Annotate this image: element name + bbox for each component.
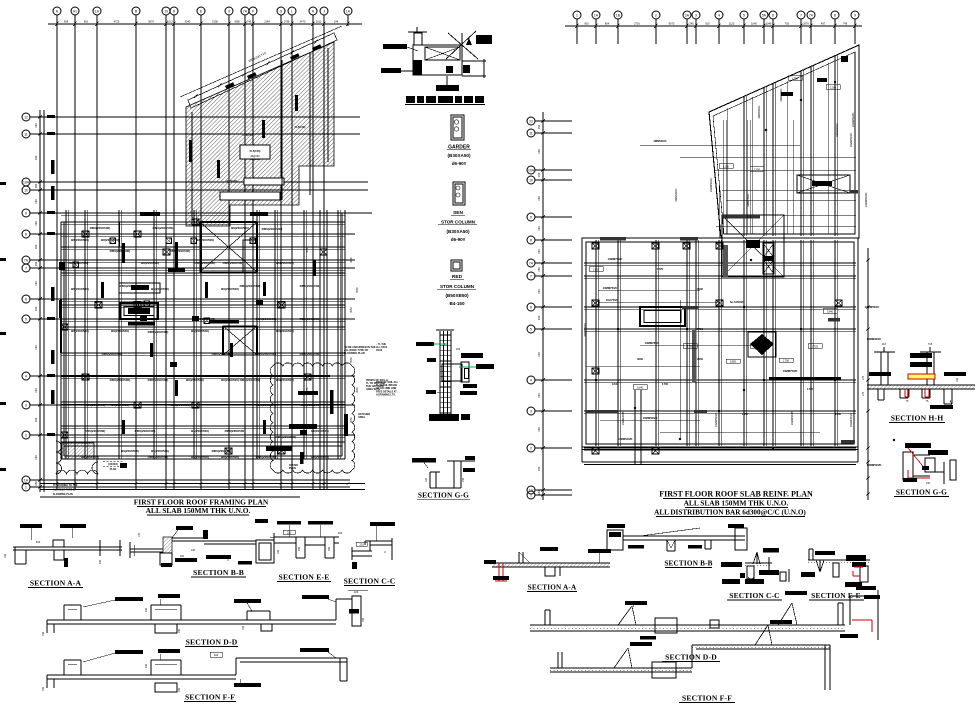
svg-text:1700: 1700 (662, 382, 668, 386)
svg-text:d6-90#: d6-90# (451, 237, 466, 242)
svg-text:10MM500/D: 10MM500/D (851, 113, 855, 128)
ladder detail: green arrows (434, 343, 447, 345)
svg-text:250: 250 (298, 546, 301, 551)
svg-text:RB6(200X500): RB6(200X500) (300, 317, 321, 321)
svg-text:B6(200X500): B6(200X500) (111, 403, 129, 407)
right plan: top grid stubs (576, 28, 578, 44)
lintel detail: leader label bars (383, 44, 407, 49)
section B-B left: right slab (204, 540, 256, 542)
svg-text:RB6(200X500): RB6(200X500) (256, 455, 277, 459)
svg-text:10MM500/D: 10MM500/D (618, 437, 633, 441)
svg-text:RB6(200X500): RB6(200X500) (212, 352, 233, 356)
section D-D right: small block (710, 620, 719, 628)
svg-text:FL5(150): FL5(150) (243, 133, 254, 137)
left plan: bottom-left corner hatched block (62, 443, 94, 459)
svg-text:STOR COLUMN: STOR COLUMN (441, 220, 476, 225)
svg-text:10MM500/C: 10MM500/C (714, 413, 718, 428)
svg-text:4725: 4725 (114, 19, 120, 23)
svg-text:(XXXXX): (XXXXX) (108, 463, 118, 466)
right plan: heavy beam fill bottom right (769, 377, 841, 380)
svg-text:SECTION A-A: SECTION A-A (30, 579, 82, 588)
lintel detail: heavy title blocks (406, 96, 415, 103)
section C-C right: drop beam (747, 566, 754, 579)
svg-text:B6(200X500): B6(200X500) (276, 378, 294, 382)
left plan: sloped dimension line with rotated text (180, 26, 342, 97)
section H-H: below-slab drops (877, 389, 879, 400)
svg-text:AREA: AREA (358, 416, 365, 419)
svg-text:150: 150 (242, 625, 245, 630)
section D-D right: brace 1 (618, 606, 632, 625)
section B-B left: upper beam lines (172, 537, 204, 539)
section B-B left: left ticks (129, 542, 131, 558)
section A-A left: left edge beam (14, 547, 16, 564)
lintel detail: black triangle (466, 38, 472, 45)
section B-B left: hatched column (163, 537, 172, 553)
svg-text:1148: 1148 (264, 19, 270, 23)
lintel detail: top tick (408, 31, 427, 33)
left plan: hatch region inner details (240, 145, 270, 159)
svg-text:J: J (323, 9, 325, 13)
svg-text:150: 150 (34, 261, 38, 266)
svg-text:150: 150 (537, 490, 541, 495)
svg-text:150: 150 (34, 244, 38, 249)
section C-C right: black bars (759, 570, 779, 575)
svg-text:7A: 7A (529, 261, 534, 265)
section A-A right: post and brace (518, 552, 520, 563)
svg-text:1A: 1A (95, 9, 100, 13)
section C-C left: profile (365, 540, 392, 542)
svg-text:1: 1 (25, 485, 27, 489)
section F-F left: raised block 2 with drop (150, 660, 152, 675)
svg-text:7A: 7A (243, 9, 248, 13)
section D-D right: right posts (837, 603, 839, 625)
section H-H: black reinforcement bars (910, 353, 932, 358)
svg-text:B6(200X500): B6(200X500) (191, 429, 209, 433)
right plan: right dimension chain (867, 248, 869, 500)
section F-F left: slab lines (47, 674, 236, 676)
svg-text:150: 150 (537, 315, 541, 320)
svg-text:1850: 1850 (742, 412, 748, 416)
svg-text:400: 400 (36, 540, 41, 544)
section E-E right: mid drop (833, 563, 839, 577)
svg-text:10MM300/D: 10MM300/D (621, 411, 625, 426)
svg-text:7A: 7A (24, 258, 29, 262)
right plan: gray beam fills (682, 306, 698, 309)
svg-text:3050: 3050 (350, 257, 353, 263)
svg-text:1A: 1A (24, 478, 29, 482)
svg-text:1788: 1788 (284, 19, 290, 23)
svg-text:10MM500/C: 10MM500/C (865, 305, 880, 309)
svg-text:150: 150 (537, 393, 541, 398)
section D-D left: right raised end (335, 599, 337, 620)
svg-text:5: 5 (530, 327, 532, 331)
svg-text:B6(200X500): B6(200X500) (276, 261, 294, 265)
svg-text:1940: 1940 (827, 309, 833, 313)
svg-text:150: 150 (537, 289, 541, 294)
right plan: vertical gray wall fills (692, 330, 697, 382)
svg-text:10MM500/D: 10MM500/D (790, 411, 794, 426)
section F-F left: right end post (339, 658, 341, 681)
svg-text:150: 150 (537, 226, 541, 231)
section D-D left: raised block 1 (63, 605, 65, 620)
section E-E right: left post (808, 549, 810, 560)
section E-E left: dims (283, 530, 295, 534)
svg-text:220: 220 (287, 531, 292, 535)
section G-G middle: profile (447, 460, 475, 462)
svg-text:220: 220 (359, 543, 364, 547)
section B-B right: diagonal connection (640, 528, 700, 536)
svg-text:8: 8 (834, 13, 836, 17)
svg-text:128: 128 (191, 549, 196, 552)
section D-D right: far right step detail (849, 596, 851, 625)
svg-text:150: 150 (537, 427, 541, 432)
svg-text:1A: 1A (346, 9, 351, 13)
svg-text:1640: 1640 (637, 385, 643, 389)
svg-text:B6(200X500): B6(200X500) (191, 329, 209, 333)
right plan: reinforcement verticals upper wing (722, 120, 724, 234)
section E-E right: right end cluster (846, 555, 866, 561)
svg-text:2: 2 (25, 433, 27, 437)
section B-B right: slab (623, 535, 745, 537)
svg-text:715: 715 (928, 342, 933, 346)
sen stor column detail (453, 182, 465, 205)
right plan: rebar dots (634, 407, 636, 409)
section C-C right: slab (745, 562, 772, 564)
section A-A right: black bars (588, 549, 611, 553)
lintel detail: top small rect (414, 33, 422, 45)
left plan: bottom dimension strip (40, 483, 365, 485)
svg-text:150: 150 (34, 388, 38, 393)
svg-text:RB6(200X500): RB6(200X500) (300, 352, 321, 356)
right plan: main body horizontals (584, 262, 856, 264)
section D-D left: mid-right step block (234, 599, 261, 603)
svg-text:ALL SLAB 150MM THK U.N.O.: ALL SLAB 150MM THK U.N.O. (146, 506, 251, 515)
ladder detail: mid junction box (442, 364, 462, 381)
svg-text:B4-150: B4-150 (449, 301, 465, 306)
svg-text:9: 9 (530, 215, 532, 219)
right plan: main body outline (582, 238, 858, 447)
section E-E right: slab (808, 559, 870, 561)
section H-H: floor beam label (930, 405, 953, 409)
section F-F right: brace 1 (614, 648, 628, 668)
svg-text:150: 150 (34, 199, 38, 204)
svg-text:1125: 1125 (729, 21, 735, 25)
svg-text:150: 150 (34, 183, 38, 188)
section F-F left: left end drop (46, 675, 48, 688)
right plan: junction dots scatter (655, 306, 657, 308)
svg-text:11: 11 (24, 132, 28, 136)
svg-text:RB6(200X500): RB6(200X500) (148, 455, 169, 459)
svg-text:16ct750/C: 16ct750/C (606, 298, 619, 302)
right plan: upper wing verticals (743, 96, 745, 236)
svg-text:B6(200X500): B6(200X500) (221, 287, 239, 291)
svg-text:240: 240 (689, 21, 694, 25)
left plan: central opening detail with heavy border (119, 283, 160, 293)
svg-text:FL5(150): FL5(150) (250, 149, 261, 153)
svg-text:SECTION A-A: SECTION A-A (528, 584, 577, 592)
svg-text:3: 3 (228, 9, 230, 13)
svg-text:RB6(200X500): RB6(200X500) (110, 249, 131, 253)
svg-text:150: 150 (537, 352, 541, 357)
svg-text:804: 804 (605, 21, 610, 25)
svg-text:B6(200X500): B6(200X500) (231, 226, 249, 230)
svg-text:RB6(200X500): RB6(200X500) (223, 261, 244, 265)
svg-text:SECTION D-D: SECTION D-D (665, 653, 717, 662)
svg-text:150: 150 (4, 553, 7, 558)
section F-F left: raised right part (235, 658, 237, 675)
left plan: junction X-boxes (110, 238, 116, 244)
right plan: main body verticals (595, 240, 597, 446)
svg-text:10MM500/D: 10MM500/D (867, 463, 882, 467)
svg-text:SECTION H-H: SECTION H-H (891, 414, 944, 423)
svg-text:4MM500/C: 4MM500/C (653, 139, 666, 143)
svg-text:RB6(200X500): RB6(200X500) (300, 284, 321, 288)
section B-B left: top bar and leader (176, 526, 193, 530)
left plan: hatch vertical label bars (189, 140, 192, 162)
left plan: left dimension chain (39, 110, 41, 492)
left plan: stair shaft with X-bracing (200, 222, 257, 272)
svg-text:B6(200X500): B6(200X500) (191, 455, 209, 459)
section F-F right: brace 2 (755, 625, 768, 645)
svg-text:B6(200X500): B6(200X500) (186, 378, 204, 382)
svg-text:150: 150 (537, 124, 541, 129)
svg-text:SECTION C-C: SECTION C-C (344, 577, 396, 586)
svg-text:175: 175 (862, 375, 865, 380)
svg-text:PLAN: PLAN (110, 468, 117, 471)
svg-text:150: 150 (34, 123, 38, 128)
svg-text:(B30XA50): (B30XA50) (448, 153, 471, 158)
left plan: sloped fascia band above hatch (188, 33, 337, 108)
svg-text:d6-90#: d6-90# (452, 161, 467, 166)
svg-text:150: 150 (178, 628, 181, 633)
section E-E right: top bar (815, 551, 835, 555)
right plan: upper wing extra verticals (726, 108, 728, 234)
svg-text:5A: 5A (762, 13, 767, 17)
svg-text:1725: 1725 (807, 387, 813, 391)
section B-B right: right block (735, 528, 747, 550)
section A-A left: slab (13, 546, 122, 548)
svg-text:5: 5 (25, 317, 27, 321)
svg-text:(B50XB50): (B50XB50) (446, 293, 469, 298)
section D-D left: raised block 2 with drop (150, 605, 152, 620)
svg-text:450: 450 (145, 607, 148, 612)
svg-text:908: 908 (64, 19, 69, 23)
svg-text:10A: 10A (528, 168, 535, 172)
svg-text:11: 11 (529, 131, 533, 135)
svg-text:2679: 2679 (803, 21, 809, 25)
svg-text:1725: 1725 (593, 267, 599, 271)
right plan: stair shaft X-box (722, 215, 784, 277)
svg-text:RB6(200X500): RB6(200X500) (170, 249, 191, 253)
section G-G right: black bars (905, 443, 931, 448)
left plan: heavy beam fill segments (168, 268, 185, 272)
svg-text:7: 7 (530, 274, 532, 278)
svg-text:Sc-61500/C: Sc-61500/C (730, 300, 744, 304)
section C-C right: brace triangle and bar (753, 552, 757, 564)
section A-A right: left end red detail (484, 560, 496, 564)
left plan: hatched roof slab region (186, 42, 334, 226)
svg-text:1: 1 (530, 493, 532, 497)
svg-text:RB6(200X500): RB6(200X500) (135, 429, 156, 433)
left plan: far left edge text specks (0, 182, 6, 185)
svg-text:RB6(200X500): RB6(200X500) (240, 284, 261, 288)
section A-A left: upstand block (53, 540, 64, 547)
svg-text:RB6(200X500): RB6(200X500) (153, 226, 174, 230)
svg-text:13: 13 (164, 9, 168, 13)
svg-text:497: 497 (821, 21, 826, 25)
svg-text:B6(200X500): B6(200X500) (311, 429, 329, 433)
section D-D left: floor beam bar 1 (115, 597, 143, 601)
ladder detail: label bars and leaders (416, 342, 434, 346)
svg-text:SECTION F-F: SECTION F-F (682, 694, 732, 703)
svg-text:748: 748 (843, 21, 848, 25)
svg-text:SECTION D-D: SECTION D-D (186, 638, 238, 647)
section E-E right: brace below (816, 560, 820, 572)
svg-text:1950: 1950 (697, 357, 703, 361)
section D-D right: middle box (655, 618, 677, 633)
red stor column detail (451, 260, 462, 271)
section G-G right: profile (903, 452, 913, 480)
svg-text:10MM750/C: 10MM750/C (603, 286, 618, 290)
svg-text:1030: 1030 (697, 287, 703, 291)
svg-text:10MM500/D: 10MM500/D (643, 416, 658, 420)
svg-text:120: 120 (354, 590, 359, 594)
svg-text:150: 150 (462, 477, 465, 482)
lintel detail: vertical line (461, 33, 463, 64)
svg-text:7: 7 (800, 13, 802, 17)
svg-text:8: 8 (25, 232, 27, 236)
left plan: lower-right black bars (289, 424, 317, 429)
svg-text:RB6(200X500): RB6(200X500) (195, 261, 216, 265)
svg-text:1750: 1750 (687, 344, 693, 348)
svg-text:3: 3 (25, 403, 27, 407)
svg-text:3050: 3050 (350, 307, 353, 313)
svg-text:RB6(200X500): RB6(200X500) (262, 227, 283, 231)
left plan: horizontal grid lines (44, 116, 360, 118)
left plan: top dimension line (48, 23, 362, 25)
svg-text:2A: 2A (685, 13, 690, 17)
lintel detail: body (413, 45, 462, 75)
svg-text:RB6(200X500): RB6(200X500) (148, 378, 169, 382)
svg-text:RB6(200X500): RB6(200X500) (110, 378, 131, 382)
section H-H: hatched slab band (867, 385, 975, 389)
section H-H: yellow highlighted bar (908, 374, 935, 379)
svg-text:1940: 1940 (835, 412, 841, 416)
svg-text:B6(200X500): B6(200X500) (111, 329, 129, 333)
svg-text:3000: 3000 (637, 357, 643, 361)
svg-text:1750: 1750 (697, 327, 703, 331)
svg-text:RB6(200X500): RB6(200X500) (256, 317, 277, 321)
svg-text:200: 200 (338, 531, 343, 535)
svg-text:ALL SLAB 150MM THK U.N.O.: ALL SLAB 150MM THK U.N.O. (684, 499, 789, 508)
section F-F left: raised block 1 (63, 660, 65, 675)
svg-text:3050: 3050 (350, 357, 353, 363)
svg-text:244: 244 (334, 19, 339, 23)
svg-text:9: 9 (854, 13, 856, 17)
section B-B left: drop block (160, 553, 172, 565)
section H-H: beam lines (867, 384, 975, 386)
svg-text:150: 150 (537, 149, 541, 154)
svg-text:175: 175 (862, 391, 865, 396)
section A-A right: slab (492, 562, 610, 564)
right plan: top dimension line (565, 25, 862, 27)
section G-G right: red reinforcement lines (908, 448, 926, 470)
section E-E left: profile (274, 536, 339, 538)
svg-text:5: 5 (743, 13, 745, 17)
svg-text:1250: 1250 (830, 85, 836, 89)
svg-text:3050: 3050 (350, 417, 353, 423)
svg-text:150: 150 (227, 556, 230, 561)
right plan: flat X-box (797, 175, 850, 193)
svg-text:L: L (291, 9, 293, 13)
section D-D left: left end drop (46, 620, 48, 633)
svg-text:1A: 1A (594, 13, 599, 17)
section B-B left: vertical black bar (203, 530, 208, 539)
svg-text:150: 150 (926, 482, 931, 485)
svg-text:150: 150 (456, 348, 461, 351)
svg-text:FL5(150): FL5(150) (227, 179, 238, 183)
svg-text:1310: 1310 (792, 76, 798, 80)
section H-H: top dim ticks (883, 347, 885, 352)
section B-B left: floor beam bars (175, 558, 197, 562)
svg-text:TL DRAWING TO THE: TL DRAWING TO THE (53, 484, 78, 487)
svg-text:150: 150 (34, 481, 38, 486)
svg-text:6: 6 (772, 13, 774, 17)
section G-G middle: floor beam bar (412, 458, 436, 463)
section F-F right: left post (557, 652, 559, 668)
svg-text:2: 2 (530, 446, 532, 450)
svg-text:1850: 1850 (730, 360, 736, 364)
left plan: left margin tick labels (47, 115, 55, 118)
svg-text:SECTION G-G: SECTION G-G (418, 491, 469, 500)
svg-text:150: 150 (34, 155, 38, 160)
svg-text:1: 1 (576, 13, 578, 17)
svg-text:13MM785/C: 13MM785/C (645, 341, 660, 345)
svg-text:10MM750/C: 10MM750/C (608, 257, 623, 261)
svg-text:150: 150 (537, 466, 541, 471)
svg-text:1725: 1725 (657, 267, 663, 271)
svg-text:RB6(200X500): RB6(200X500) (102, 352, 123, 356)
lintel detail: left black fill (413, 60, 422, 75)
svg-text:SECTION C-C: SECTION C-C (729, 591, 779, 600)
svg-text:5195: 5195 (212, 19, 218, 23)
svg-text:SECTION G-G: SECTION G-G (896, 488, 947, 497)
svg-text:3040: 3040 (185, 19, 191, 23)
section B-B right: left block (607, 530, 623, 550)
svg-text:1B: 1B (616, 13, 621, 17)
section A-A left: label bars (20, 524, 42, 528)
svg-text:RB6(200X500): RB6(200X500) (170, 403, 191, 407)
svg-text:150: 150 (537, 267, 541, 272)
svg-text:250: 250 (328, 546, 331, 551)
left plan: vertical label bars (122, 243, 125, 263)
svg-text:9MM750/C: 9MM750/C (746, 193, 750, 206)
svg-text:801: 801 (84, 19, 89, 23)
section F-F right: middle box (652, 662, 676, 678)
svg-text:4MM500/C: 4MM500/C (674, 188, 678, 201)
svg-text:B6(200X500): B6(200X500) (151, 449, 169, 453)
svg-text:10MM500/C: 10MM500/C (709, 178, 713, 193)
section H-H: red stirrup marks (904, 389, 906, 397)
left plan: hatch inner edge lines (191, 112, 193, 218)
svg-text:B6(200X500): B6(200X500) (141, 261, 159, 265)
left plan: outer wall boundary (60, 222, 62, 459)
right plan: black diamond column (748, 332, 776, 357)
svg-text:SECTION F-F: SECTION F-F (185, 693, 235, 702)
right plan: wing vertical at grid 4 (718, 180, 720, 238)
right plan: top grid bubbles (573, 11, 581, 19)
svg-text:150: 150 (34, 281, 38, 286)
